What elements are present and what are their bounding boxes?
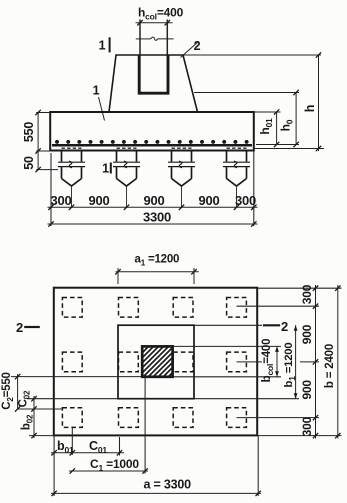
plan: column hatched — [142, 346, 172, 376]
pile plan r3c1 — [62, 408, 82, 428]
column break line — [136, 38, 151, 40]
plan right: dimension b_col=400 — [276, 346, 278, 376]
plan: pedestal outline — [118, 325, 194, 399]
pedestal (podkolonnik) outline — [109, 55, 198, 112]
plan left: dimension C2=550 — [17, 374, 19, 409]
plan bottom: ext lines — [53, 436, 55, 496]
extension line h top (pedestal top) — [183, 54, 321, 56]
left dimension 550 and 50 — [36, 112, 50, 114]
svg-text:hcol=400: hcol=400 — [138, 6, 184, 22]
pile plan r1c2 — [119, 298, 139, 318]
bottom dimension line 300/900x3/300 — [48, 206, 258, 208]
svg-text:b = 2400: b = 2400 — [324, 344, 336, 388]
plan right: pedestal bottom ext — [194, 398, 299, 400]
plan bottom: dim line a=3300 — [51, 492, 261, 494]
plan: slab outline — [54, 288, 257, 436]
svg-text:C1 =1000: C1 =1000 — [90, 457, 139, 473]
plan right: dimension b1=1200 — [295, 325, 297, 399]
svg-text:550: 550 — [22, 122, 36, 143]
pile plan r2c1 — [62, 352, 82, 372]
svg-text:300: 300 — [300, 284, 314, 304]
svg-text:900: 900 — [198, 193, 219, 208]
svg-text:300: 300 — [300, 416, 314, 436]
plan right: ext lines from slab/rows — [257, 287, 341, 289]
svg-text:1: 1 — [93, 84, 100, 98]
plan right: dimension b=2400 — [337, 285, 339, 439]
dimension line h_col — [136, 22, 173, 24]
pile plan r3c2 — [119, 408, 139, 428]
plan left: dimension C02 — [33, 396, 35, 438]
plan right: column edge ext lines — [173, 345, 281, 347]
svg-text:50: 50 — [22, 156, 36, 170]
svg-text:900: 900 — [300, 324, 314, 344]
svg-text:2: 2 — [16, 320, 23, 335]
pile 4 (elevation) — [223, 151, 250, 207]
svg-text:300: 300 — [50, 193, 71, 208]
bottom dimension extension lines — [50, 153, 52, 226]
pile plan r2c4 — [227, 352, 247, 372]
plan right: chain dim 300/900/900/300 — [315, 285, 317, 439]
right dimension h0 — [295, 93, 297, 145]
pile plan r2c2 — [119, 352, 139, 372]
pile 3 (elevation) — [168, 151, 195, 207]
svg-text:h: h — [303, 105, 317, 112]
foundation plate (slab) rectangle — [50, 112, 254, 151]
plan bottom: dim line C1=1000 — [69, 470, 148, 472]
right dimension h — [254, 148, 324, 150]
right dimension h01 — [254, 111, 281, 113]
svg-text:1: 1 — [102, 162, 109, 176]
svg-text:900: 900 — [300, 380, 314, 400]
svg-text:900: 900 — [88, 193, 109, 208]
svg-text:1: 1 — [99, 39, 106, 53]
rebar dots — [55, 140, 249, 144]
plan right: pedestal top ext + section mark 2 — [194, 324, 262, 326]
pile plan r1c1 — [62, 298, 82, 318]
pile plan r3c3 — [173, 408, 193, 428]
column face extension lines above socket — [139, 20, 141, 56]
extension line h0 top (socket bottom) — [194, 92, 299, 94]
plan left: ext lines — [11, 376, 142, 378]
pile 1 (elevation) — [58, 151, 85, 207]
svg-text:3300: 3300 — [143, 209, 171, 224]
bottom dimension line 3300 — [48, 223, 258, 225]
plan bottom: dim line b01 / C01 — [51, 452, 124, 454]
pile 2 (elevation) — [113, 151, 140, 207]
svg-text:300: 300 — [235, 193, 256, 208]
pile plan r1c3 — [173, 298, 193, 318]
column socket (stakan) thick walls — [139, 55, 168, 93]
pile head hidden (dashed) lines in plate — [62, 147, 82, 149]
svg-text:C2=550: C2=550 — [1, 372, 15, 409]
reinforcement mesh line — [52, 144, 252, 147]
pile plan r1c4 — [227, 298, 247, 318]
svg-text:bcol=400: bcol=400 — [261, 339, 275, 383]
svg-text:a = 3300: a = 3300 — [144, 478, 192, 492]
svg-text:2: 2 — [281, 319, 288, 334]
pile plan r2c3 — [173, 352, 193, 372]
svg-text:2: 2 — [194, 39, 201, 53]
pile plan r3c4 — [227, 408, 247, 428]
svg-text:900: 900 — [143, 193, 164, 208]
